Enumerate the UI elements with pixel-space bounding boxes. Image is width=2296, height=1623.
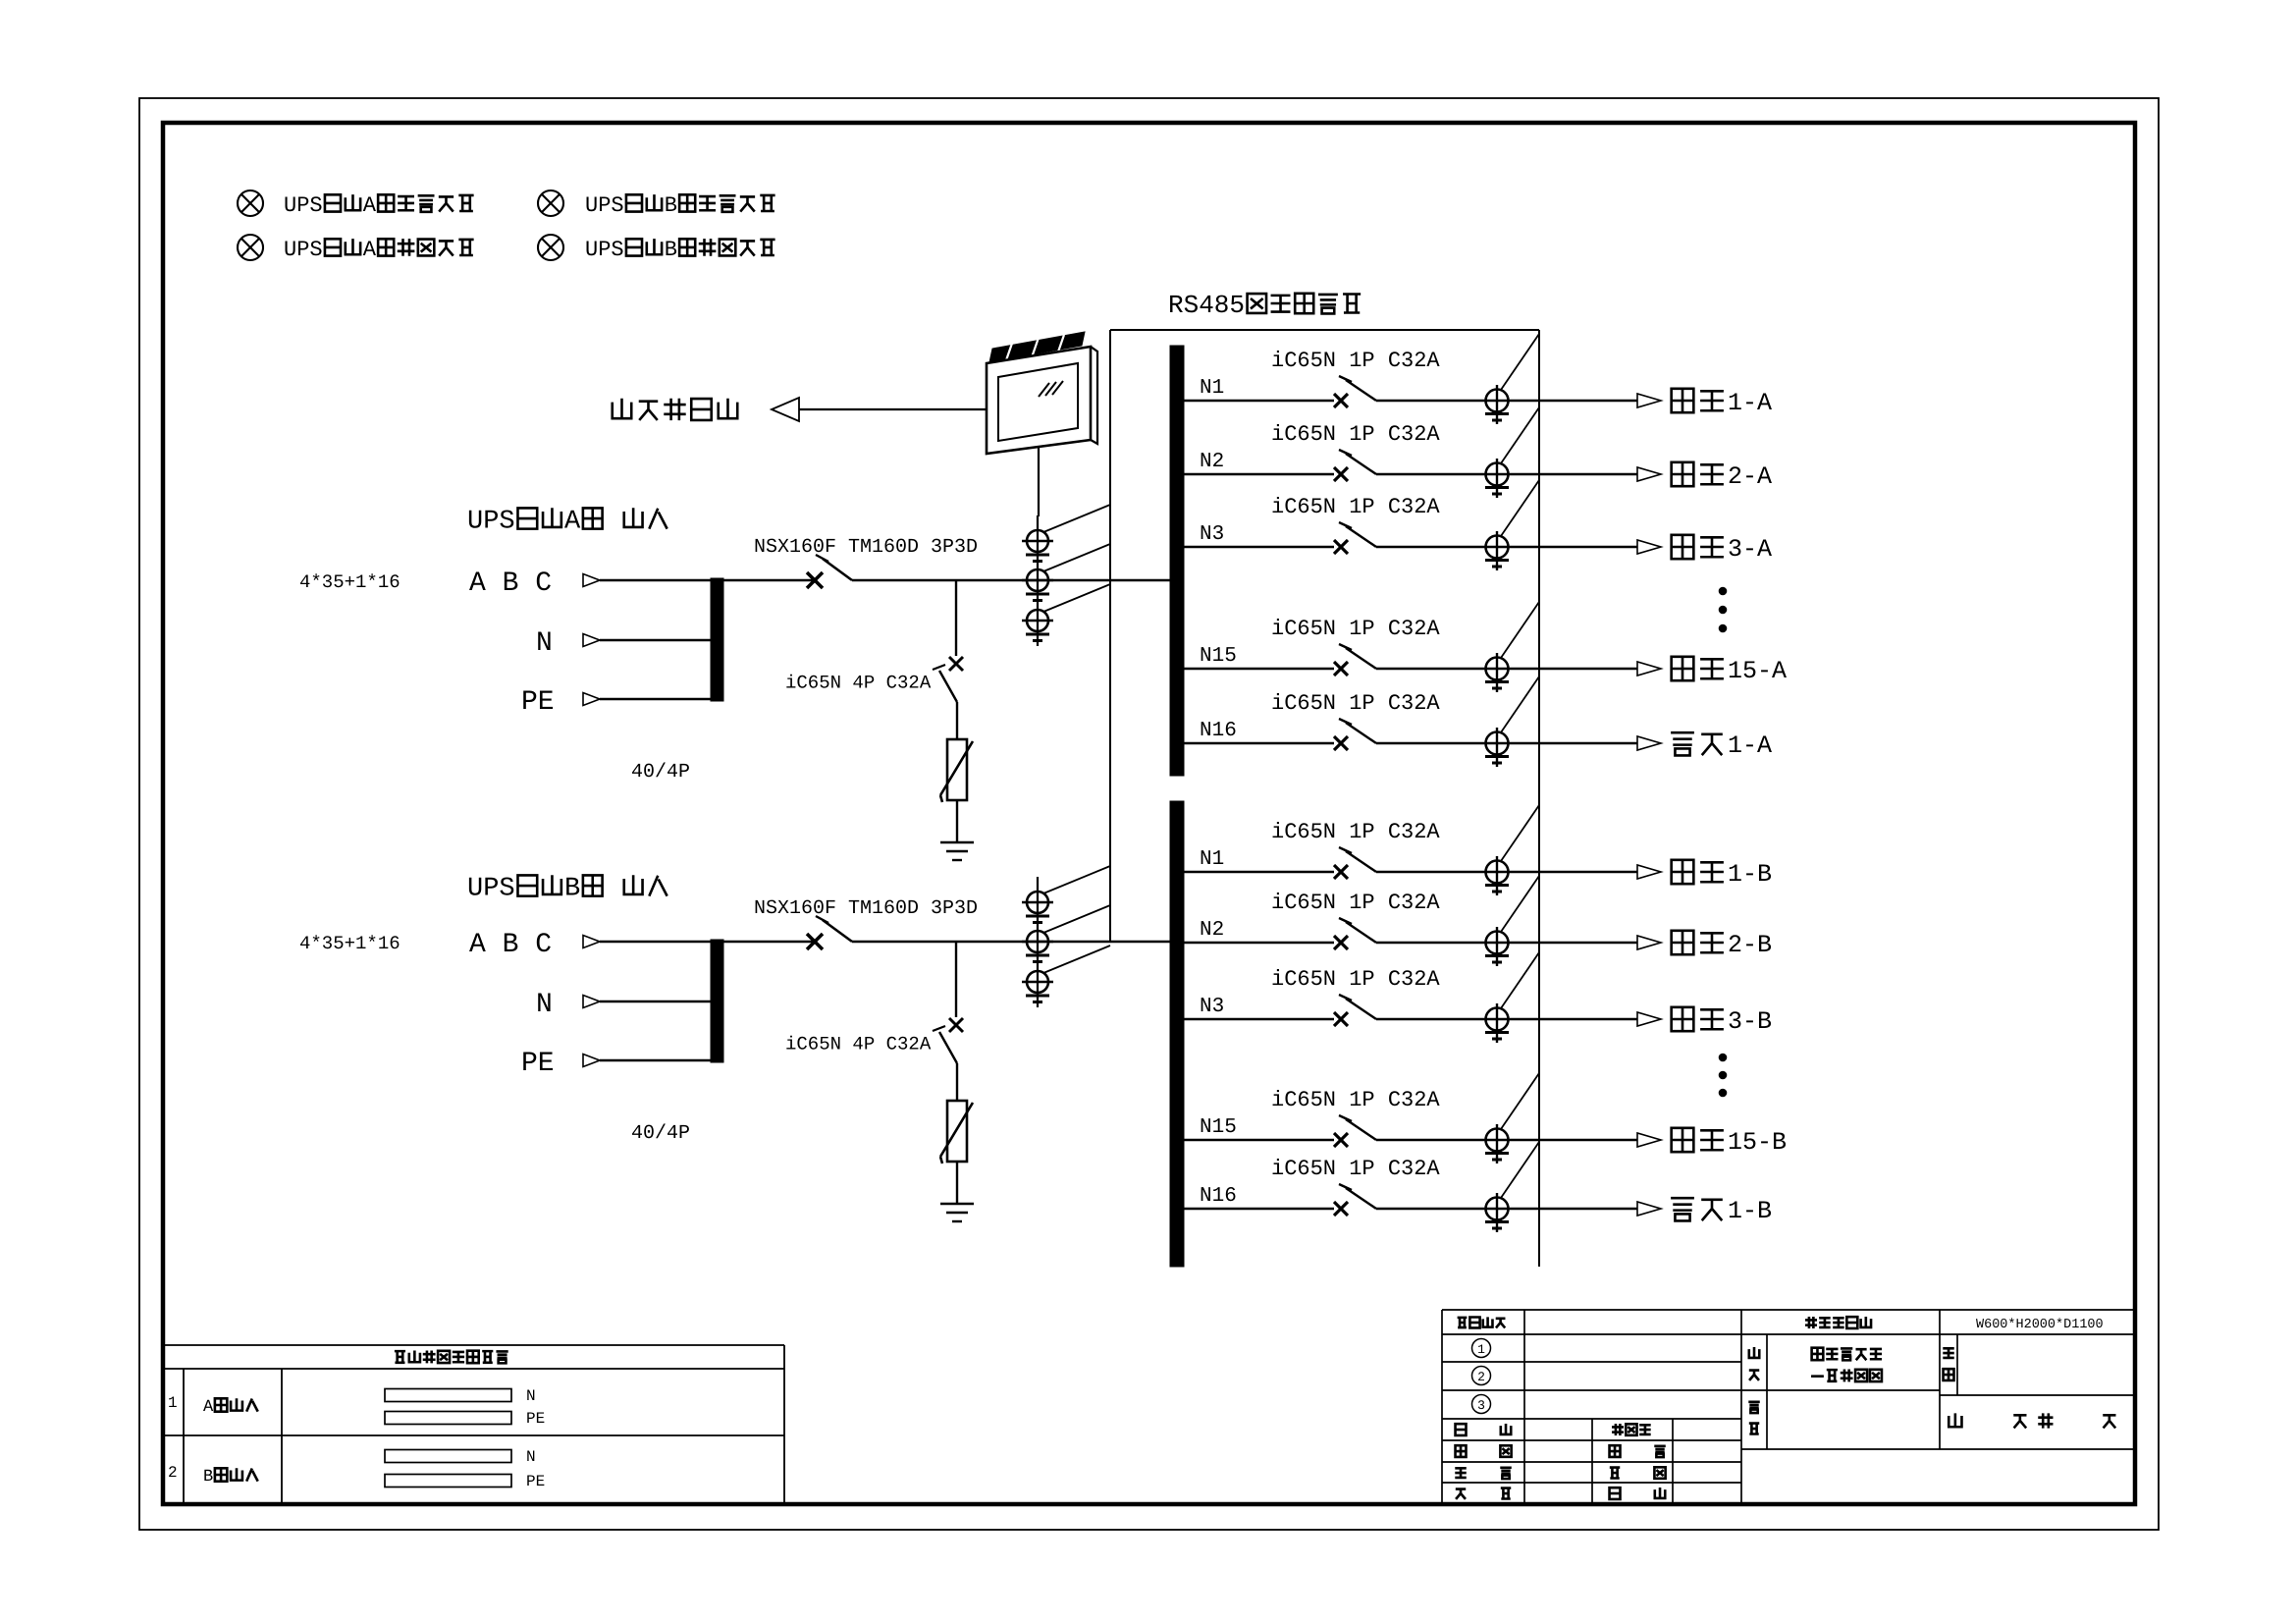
svg-text:A: A — [363, 193, 377, 218]
svg-text:iC65N 1P C32A: iC65N 1P C32A — [1271, 495, 1440, 519]
svg-text:15-B: 15-B — [1728, 1128, 1787, 1157]
svg-text:2: 2 — [168, 1464, 178, 1482]
svg-text:N15: N15 — [1200, 1116, 1237, 1139]
svg-text:3-B: 3-B — [1728, 1007, 1772, 1036]
svg-text:UPS: UPS — [467, 508, 515, 537]
svg-text:N16: N16 — [1200, 1185, 1237, 1208]
svg-text:iC65N 1P C32A: iC65N 1P C32A — [1271, 617, 1440, 641]
svg-text:N3: N3 — [1200, 523, 1224, 546]
svg-text:A B C: A B C — [469, 930, 552, 960]
svg-text:N16: N16 — [1200, 720, 1237, 742]
svg-text:A B C: A B C — [469, 568, 552, 599]
svg-text:N: N — [536, 628, 553, 659]
svg-text:2-B: 2-B — [1728, 931, 1772, 959]
svg-text:iC65N 1P C32A: iC65N 1P C32A — [1271, 891, 1440, 915]
svg-text:4*35+1*16: 4*35+1*16 — [299, 933, 400, 954]
svg-text:UPS: UPS — [284, 193, 323, 218]
svg-text:1: 1 — [1477, 1342, 1485, 1357]
svg-text:NSX160F TM160D 3P3D: NSX160F TM160D 3P3D — [754, 536, 978, 559]
svg-text:iC65N 1P C32A: iC65N 1P C32A — [1271, 1088, 1440, 1112]
svg-text:iC65N 1P C32A: iC65N 1P C32A — [1271, 422, 1440, 447]
svg-text:W600*H2000*D1100: W600*H2000*D1100 — [1976, 1318, 2104, 1332]
svg-text:1-A: 1-A — [1728, 731, 1772, 760]
svg-text:A: A — [564, 508, 581, 537]
svg-text:1-B: 1-B — [1728, 860, 1772, 889]
svg-text:N2: N2 — [1200, 451, 1224, 473]
svg-text:1: 1 — [168, 1394, 178, 1412]
svg-text:PE: PE — [521, 687, 555, 718]
svg-text:UPS: UPS — [585, 238, 624, 262]
svg-text:iC65N 1P C32A: iC65N 1P C32A — [1271, 967, 1440, 992]
svg-text:A: A — [363, 238, 377, 262]
svg-text:1-A: 1-A — [1728, 389, 1772, 417]
svg-text:iC65N 4P C32A: iC65N 4P C32A — [785, 673, 932, 694]
svg-text:iC65N 1P C32A: iC65N 1P C32A — [1271, 820, 1440, 844]
svg-text:4*35+1*16: 4*35+1*16 — [299, 571, 400, 593]
svg-text:iC65N 1P C32A: iC65N 1P C32A — [1271, 1157, 1440, 1181]
svg-text:40/4P: 40/4P — [631, 761, 690, 784]
svg-text:A: A — [203, 1398, 214, 1417]
svg-text:UPS: UPS — [467, 875, 515, 904]
svg-text:B: B — [665, 193, 677, 218]
svg-text:2: 2 — [1477, 1370, 1485, 1384]
svg-text:B: B — [665, 238, 677, 262]
svg-text:N: N — [526, 1448, 536, 1466]
svg-text:B: B — [564, 875, 580, 904]
svg-text:N3: N3 — [1200, 996, 1224, 1018]
svg-text:PE: PE — [526, 1410, 545, 1428]
svg-text:UPS: UPS — [585, 193, 624, 218]
svg-text:N1: N1 — [1200, 377, 1224, 400]
svg-text:UPS: UPS — [284, 238, 323, 262]
svg-text:40/4P: 40/4P — [631, 1122, 690, 1145]
svg-text:iC65N 4P C32A: iC65N 4P C32A — [785, 1034, 932, 1055]
svg-text:NSX160F TM160D 3P3D: NSX160F TM160D 3P3D — [754, 897, 978, 920]
svg-text:N2: N2 — [1200, 919, 1224, 942]
svg-text:B: B — [203, 1468, 213, 1487]
svg-text:N1: N1 — [1200, 848, 1224, 871]
svg-text:N: N — [526, 1387, 536, 1405]
svg-text:PE: PE — [526, 1473, 545, 1490]
svg-text:iC65N 1P C32A: iC65N 1P C32A — [1271, 691, 1440, 716]
svg-text:PE: PE — [521, 1049, 555, 1079]
svg-text:N: N — [536, 990, 553, 1020]
svg-text:1-B: 1-B — [1728, 1197, 1772, 1225]
svg-text:RS485: RS485 — [1168, 291, 1245, 320]
svg-text:2-A: 2-A — [1728, 462, 1772, 491]
svg-text:3-A: 3-A — [1728, 535, 1772, 564]
svg-text:N15: N15 — [1200, 645, 1237, 668]
svg-text:iC65N 1P C32A: iC65N 1P C32A — [1271, 349, 1440, 373]
svg-text:15-A: 15-A — [1728, 657, 1787, 685]
svg-text:3: 3 — [1477, 1398, 1485, 1413]
